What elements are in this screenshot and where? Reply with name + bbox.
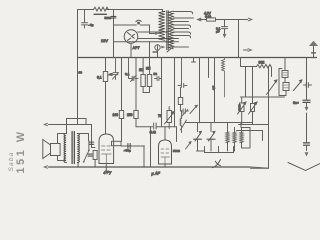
italic mark on bus <box>213 160 221 168</box>
drop x=238 to bus <box>238 20 240 58</box>
detector tube oval <box>159 140 172 164</box>
T1 secondary taps with hooks <box>173 12 193 38</box>
ground chevron <box>288 163 320 171</box>
long vertical x=268 <box>251 67 269 169</box>
T1 right winding <box>169 11 174 49</box>
svg-text:μ AF: μ AF <box>150 170 160 176</box>
wire: grid cap to transformer with arrow <box>140 25 155 34</box>
svg-text:5000: 5000 <box>173 149 180 153</box>
svg-text:302: 302 <box>259 61 265 65</box>
horizontal y=126.3 with cap <box>136 126 177 128</box>
vertical x=214 <box>214 58 216 123</box>
vertical x=271 from resistor <box>271 67 273 77</box>
wire y=124 pickup line with left arrow <box>49 124 92 126</box>
resistor R1 mains dropper zigzag <box>94 7 109 11</box>
vertical x=121 with resistor 160 <box>121 58 123 142</box>
junction blob under lamp <box>153 51 158 53</box>
cap on x=91 drop <box>90 142 94 144</box>
vertical x=105 chain: resistor then to output tube <box>105 58 107 135</box>
wire: top mains line y=9 <box>78 9 163 11</box>
wires from V1 right side heaters <box>114 32 179 42</box>
svg-text:Saba: Saba <box>8 152 15 172</box>
grid cap arc of tube V1 <box>136 20 141 22</box>
vertical x=135.5 with resistor 250 <box>135 58 137 127</box>
switch <box>84 151 89 162</box>
right column vertical from bus <box>306 58 308 100</box>
fuse rectangle <box>207 18 216 21</box>
vertical x=199 <box>199 58 201 123</box>
vertical x=245 <box>245 67 247 97</box>
lamp lead <box>157 50 159 57</box>
svg-text:(0,1): (0,1) <box>150 130 156 134</box>
wire: grid line y=24.5 <box>114 24 137 26</box>
wire: left mains vertical x=77 <box>77 10 79 125</box>
T1 left winding <box>159 11 165 40</box>
cap with arrow right of pot <box>181 109 189 114</box>
wire drop x=149 to bus <box>149 42 151 58</box>
stub x=193 with T <box>192 58 196 63</box>
anode resistor rect <box>103 72 107 82</box>
oscillator block <box>282 71 288 78</box>
mid right: variable resistor 3000 <box>240 103 245 112</box>
speaker cone <box>43 140 51 159</box>
IF/osc coils <box>226 132 230 143</box>
bracket below coils <box>205 147 234 153</box>
svg-text:AF7: AF7 <box>133 45 140 50</box>
dial lamp <box>155 45 160 50</box>
vertical x=161 with cap mark <box>161 58 163 127</box>
resistor x=142.6 <box>142 58 144 93</box>
tuning trimmer 2 <box>207 133 215 142</box>
wire x=66 down to output transformer <box>66 119 68 134</box>
output transformer primary winding <box>64 134 66 163</box>
cap x=128 with arrow <box>129 58 139 81</box>
svg-text:0,1: 0,1 <box>97 76 102 80</box>
phono stub arrow y=49.5 <box>244 49 248 51</box>
svg-text:~5μ: ~5μ <box>88 23 93 27</box>
vertical x=208 <box>208 58 210 78</box>
svg-text:160: 160 <box>113 113 119 117</box>
right arrow end of heater line <box>248 18 252 21</box>
svg-text:151 W: 151 W <box>15 129 27 173</box>
main bus y=57 <box>78 57 317 59</box>
svg-text:≈5: ≈5 <box>109 73 113 77</box>
horizontals y=124 y=130 <box>237 125 269 141</box>
svg-text:μF: μF <box>216 30 220 34</box>
secondary leads <box>78 134 88 168</box>
svg-text:75: 75 <box>158 114 162 118</box>
coil squiggle x=181 <box>180 111 181 133</box>
svg-text:0,1: 0,1 <box>125 72 130 76</box>
svg-text:3000: 3000 <box>238 104 242 111</box>
wire: vertical x=113 full drop <box>113 10 115 58</box>
wave switch arrow right of detector <box>186 143 191 150</box>
bottom bus y=166.5 <box>49 166 251 168</box>
V1 cathode lead <box>130 43 132 57</box>
vertical x=181 with cap bridge y=85 <box>178 58 187 88</box>
speaker leads <box>58 134 67 161</box>
rect above dome <box>112 141 122 145</box>
wire: heater line y=19 with left arrow <box>198 19 248 21</box>
cathode resistor <box>93 151 97 160</box>
svg-text:50: 50 <box>154 72 158 76</box>
capacitor C1 on x=84 <box>82 10 88 29</box>
cap blob near switch <box>88 154 92 156</box>
svg-text:6o≈: 6o≈ <box>293 101 299 105</box>
resistor 302 zigzag <box>257 65 272 68</box>
coil lead from AVC line <box>240 123 242 128</box>
svg-text:≈50μ: ≈50μ <box>124 148 131 152</box>
antenna <box>313 46 315 58</box>
tube V1 circle AF7 <box>124 30 138 44</box>
output transformer core <box>72 132 74 164</box>
AVC line y=122 <box>186 122 253 124</box>
second variable arrow <box>251 104 255 112</box>
wire y=118 left <box>67 119 87 125</box>
switch diagonal <box>181 120 187 129</box>
T1 bottom tap with adjust arrow <box>167 47 189 53</box>
capacitor C2 blob on x=113 <box>111 16 116 18</box>
vertical x=252 <box>252 67 254 104</box>
cap with arrow x=115 <box>113 58 118 80</box>
drop x=224 capacitor and chassis arrow <box>222 20 228 34</box>
loop around detector <box>151 127 177 167</box>
svg-text:0,3A: 0,3A <box>205 15 212 19</box>
wire x=91 down to cathode resistor <box>92 125 96 148</box>
svg-text:4,5: 4,5 <box>212 85 216 90</box>
resistor x=149 <box>143 58 149 93</box>
power transformer T1 primary top lead <box>163 10 165 12</box>
volume pot <box>167 111 172 123</box>
tuning trimmer 1 <box>194 133 202 142</box>
svg-text:3M: 3M <box>146 67 151 71</box>
cap right of oscillator <box>304 83 312 88</box>
node dots on bus <box>113 57 114 58</box>
coil x=224 <box>222 58 225 98</box>
vertical x=174 <box>174 58 176 127</box>
svg-text:30: 30 <box>79 71 83 75</box>
upper arrow <box>190 106 197 114</box>
bottom link y=96.5 <box>241 96 285 98</box>
cap blob right <box>128 144 130 149</box>
svg-text:4 Py: 4 Py <box>103 169 112 175</box>
svg-text:1M: 1M <box>139 68 144 72</box>
output transformer secondary winding <box>77 134 79 163</box>
svg-text:5000: 5000 <box>105 16 112 20</box>
svg-text:12V: 12V <box>101 38 108 43</box>
iron-core bar under R1 <box>94 13 107 15</box>
wire to 302 resistor <box>241 58 257 67</box>
speaker driver box <box>51 144 61 156</box>
T1 core <box>167 11 168 50</box>
small component rect below <box>178 98 182 105</box>
arrow through 302 <box>267 82 277 95</box>
svg-text:250: 250 <box>127 113 133 117</box>
output tube dome <box>99 134 114 164</box>
